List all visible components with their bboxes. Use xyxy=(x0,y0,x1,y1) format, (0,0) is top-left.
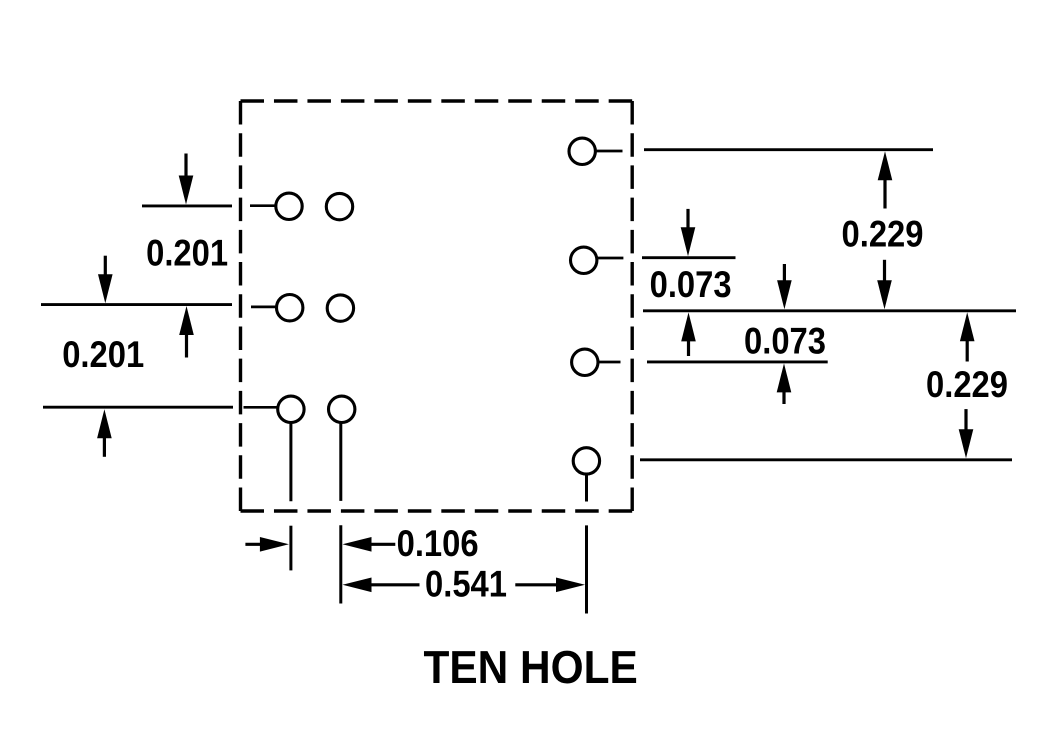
svg-text:0.073: 0.073 xyxy=(744,320,826,362)
svg-text:0.106: 0.106 xyxy=(397,522,479,564)
svg-text:0.229: 0.229 xyxy=(842,212,924,254)
svg-text:0.541: 0.541 xyxy=(425,563,507,605)
svg-text:0.073: 0.073 xyxy=(650,263,732,305)
svg-text:0.229: 0.229 xyxy=(926,363,1008,405)
svg-text:0.201: 0.201 xyxy=(146,232,228,274)
svg-text:0.201: 0.201 xyxy=(62,333,144,375)
svg-text:TEN HOLE: TEN HOLE xyxy=(423,641,637,693)
